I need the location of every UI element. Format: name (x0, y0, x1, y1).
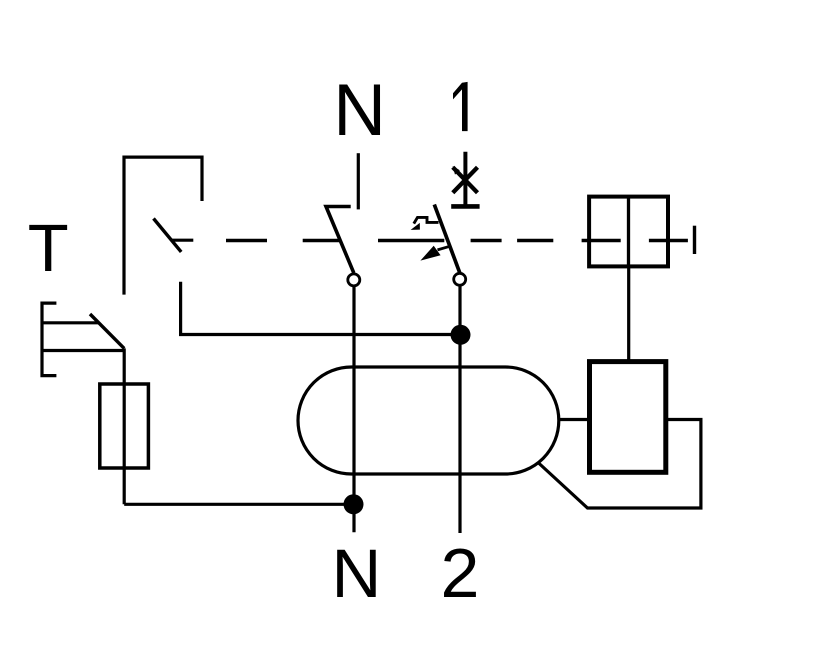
svg-text:N: N (333, 70, 386, 151)
svg-text:T: T (28, 211, 69, 286)
svg-text:N: N (332, 535, 382, 612)
svg-text:2: 2 (441, 534, 480, 612)
